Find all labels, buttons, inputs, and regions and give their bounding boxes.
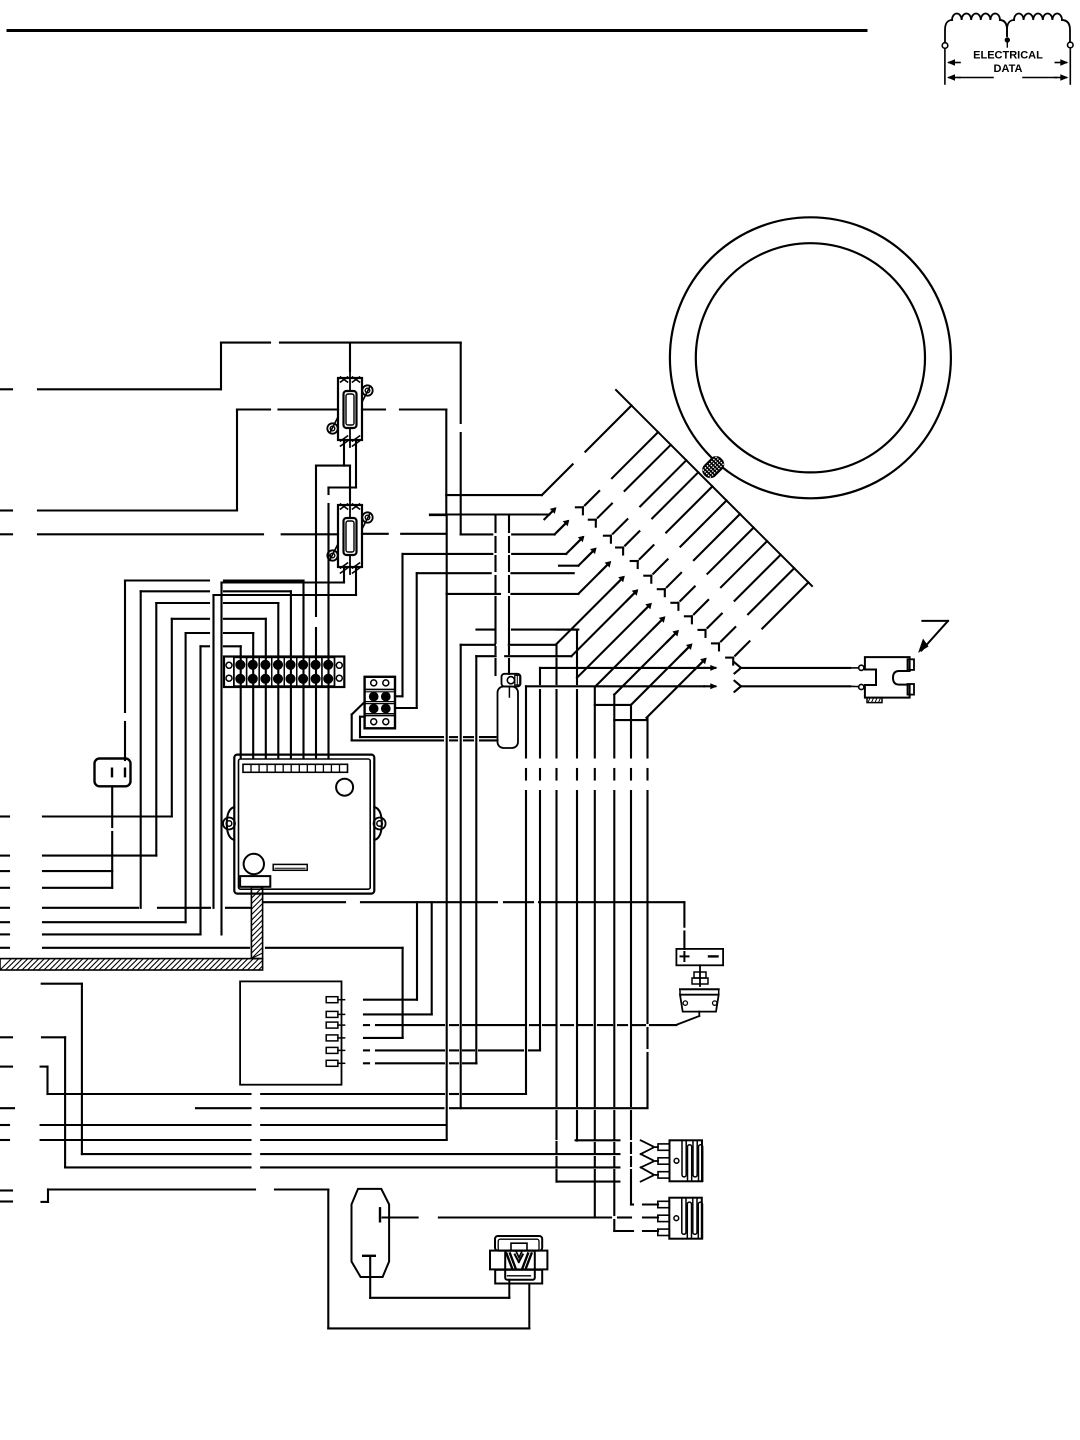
- svg-text:ELECTRICAL: ELECTRICAL: [973, 50, 1043, 62]
- svg-text:DATA: DATA: [994, 63, 1023, 75]
